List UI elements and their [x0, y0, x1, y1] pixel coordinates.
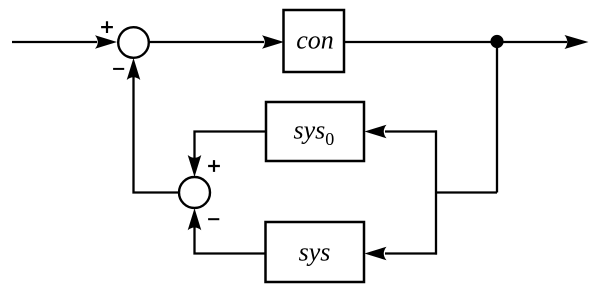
arrowhead: up into S1 minus input [127, 58, 141, 80]
wire: sys output to summing junction S2 [195, 213, 266, 254]
label: + sign at S1 input [101, 21, 113, 33]
summing junction S1 [118, 27, 149, 58]
block sys0 [266, 102, 364, 161]
arrowhead: up into S2 minus input [188, 208, 202, 230]
summing junction S2 [179, 177, 210, 208]
node: pickoff point [490, 35, 503, 48]
arrowhead: into sys0 block [365, 125, 387, 139]
arrowhead: down into S2 plus input [188, 155, 202, 177]
arrowhead: system output [565, 35, 589, 49]
label: minus sign at S2 sys input [208, 218, 219, 220]
arrowhead: into sys block [365, 247, 387, 261]
block con [284, 10, 345, 72]
wire: input line [12, 41, 97, 43]
wire: S2 output to S1 minus input [134, 63, 180, 193]
label: + sign at S2 sys0 input [208, 160, 220, 172]
wire: sys0 output to summing junction S2 [195, 132, 267, 173]
arrowhead: input into summing junction S1 [95, 35, 117, 49]
svg-text:sys: sys [299, 237, 331, 266]
wire: pickoff node down [496, 42, 498, 193]
wire: trunk to sys0 block [385, 130, 437, 132]
wire: trunk to sys block [385, 252, 437, 254]
label: minus sign at S1 feedback input [113, 68, 124, 70]
block sys [266, 222, 365, 282]
svg-text:con: con [296, 26, 334, 55]
wire: S1 output to con block [149, 41, 264, 43]
arrowhead: into con block [262, 35, 284, 49]
wire: horizontal connector to feedback trunk [436, 191, 497, 193]
wire: con output to output arrow [344, 41, 567, 43]
wire: feedback trunk vertical [435, 130, 437, 254]
